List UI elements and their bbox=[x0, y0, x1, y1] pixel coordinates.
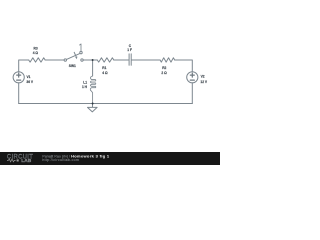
wire: C to R2 bbox=[132, 59, 160, 61]
V2 plus sign bbox=[190, 73, 194, 77]
wire: SW1 to node and R1 bbox=[83, 59, 97, 61]
svg-text:SW1: SW1 bbox=[69, 64, 76, 68]
wire: V1 top lead up to top-left corner bbox=[19, 60, 29, 72]
switch SW1 lever bbox=[67, 53, 81, 59]
switch SW1 arrowhead bbox=[75, 57, 77, 60]
svg-text:http://circuitlab.com: http://circuitlab.com bbox=[42, 158, 79, 162]
ground stub bbox=[92, 104, 94, 108]
capacitor C left plate bbox=[128, 54, 130, 65]
svg-text:R1: R1 bbox=[102, 66, 106, 70]
svg-text:2 Ω: 2 Ω bbox=[161, 71, 167, 75]
svg-text:R3: R3 bbox=[34, 47, 38, 51]
ground symbol bbox=[88, 107, 98, 112]
svg-text:LAB: LAB bbox=[21, 158, 31, 164]
inductor L1 bbox=[90, 76, 95, 104]
wire: V2 bottom lead to bottom rail bbox=[191, 83, 193, 104]
voltage source V2 bbox=[187, 72, 198, 83]
V2 minus sign bbox=[190, 79, 194, 81]
svg-text:4 Ω: 4 Ω bbox=[102, 71, 108, 75]
CircuitLab logo bbox=[7, 155, 33, 164]
wire: V1 bottom lead bbox=[18, 83, 20, 104]
svg-text:R2: R2 bbox=[162, 66, 166, 70]
svg-text:1 H: 1 H bbox=[82, 85, 88, 89]
resistor R1 bbox=[97, 58, 113, 62]
node dot at top junction bbox=[92, 59, 94, 61]
wire: R1 to capacitor C bbox=[114, 59, 129, 61]
svg-text:V2: V2 bbox=[201, 74, 205, 78]
svg-text:4 Ω: 4 Ω bbox=[33, 51, 39, 55]
resistor R3 bbox=[29, 58, 45, 62]
resistor R2 bbox=[160, 58, 174, 62]
capacitor C right plate bbox=[130, 54, 132, 65]
V1 minus sign bbox=[17, 79, 21, 81]
svg-text:L1: L1 bbox=[83, 81, 87, 85]
switch SW1 left contact bbox=[64, 59, 66, 61]
wire: bottom rail bbox=[19, 103, 193, 105]
switch SW1 right contact bbox=[81, 59, 83, 61]
footer bar bbox=[0, 152, 220, 165]
svg-text:36 V: 36 V bbox=[26, 80, 34, 84]
voltage source V1 bbox=[13, 72, 24, 83]
switch SW1 action arrow bbox=[74, 52, 76, 56]
wire: R3 to SW1 left contact bbox=[45, 59, 64, 61]
svg-text:V1: V1 bbox=[27, 75, 31, 79]
V1 plus sign bbox=[17, 73, 21, 77]
svg-text:12 V: 12 V bbox=[200, 80, 208, 84]
switch SW1 knob bbox=[80, 51, 82, 53]
svg-text:1 F: 1 F bbox=[127, 48, 132, 52]
node dot at bottom junction bbox=[92, 103, 94, 105]
wire: R2 to top-right corner down to V2 bbox=[175, 60, 193, 72]
wire: node to inductor L1 bbox=[92, 60, 94, 76]
switch SW1 actuator stem bbox=[80, 44, 81, 51]
